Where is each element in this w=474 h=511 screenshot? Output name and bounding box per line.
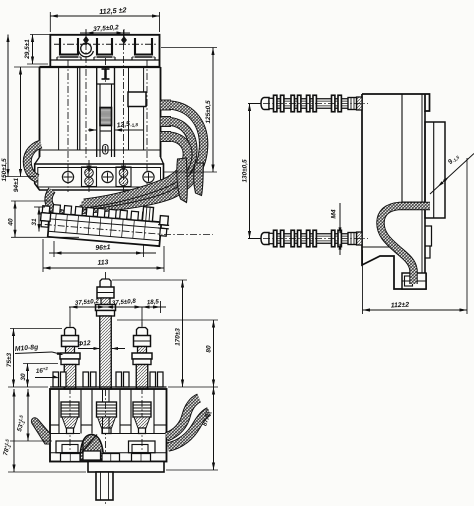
front view: datum diamonds on mounting centerlines xyxy=(83,36,89,44)
dimension 30 xyxy=(23,363,58,365)
front view: I (on) marking xyxy=(104,69,106,79)
side view: step below plate xyxy=(425,226,432,246)
bottom view stud at x=105.5 xyxy=(100,279,111,287)
side view: upper stud nut bars xyxy=(274,95,277,112)
bottom view: left braided wire tail xyxy=(31,418,50,444)
svg-text:29,5±1: 29,5±1 xyxy=(24,39,31,60)
front view: terminal strip xyxy=(35,157,40,164)
bottom view stud at x=70 xyxy=(65,328,76,336)
dimension 53 +1,5/-1 xyxy=(10,440,52,442)
svg-text:170±3: 170±3 xyxy=(175,328,182,346)
bottom view: base plate xyxy=(88,462,164,473)
front view: cap notches xyxy=(60,38,78,55)
dimension 75+-3 xyxy=(10,328,62,330)
dimension M4 stud thread xyxy=(339,203,341,233)
dimension 170+-3 xyxy=(112,279,187,281)
dimension chain 37,5 / 37,5 / 18,5 xyxy=(69,307,71,326)
dimension 80 xyxy=(117,319,218,321)
side view: upper stud tip cap xyxy=(261,98,269,110)
side view: upper terminal stud xyxy=(250,95,368,247)
front view: breaker top cap xyxy=(50,35,159,67)
bottom view: center stud hole walls xyxy=(102,389,104,402)
bottom view: lever diagonal xyxy=(82,435,97,453)
dimension 130+-0,5 stud spacing xyxy=(248,103,261,105)
svg-text:Ф12: Ф12 xyxy=(78,340,92,348)
block left fixing bolt xyxy=(42,206,50,214)
wire: strap from strip left down to block xyxy=(49,190,68,214)
front view: mounting hole with screw xyxy=(81,43,92,54)
bottom view: right braided wires xyxy=(167,398,200,437)
block right end terminal xyxy=(142,207,153,222)
block right fixing bolt xyxy=(160,216,169,226)
front view: toggle handle slot xyxy=(97,83,115,85)
front view: pole centerlines xyxy=(67,60,69,192)
front view: toggle handle knob (hatched) xyxy=(100,108,112,126)
bottom view: contact spring stacks xyxy=(61,402,79,417)
svg-text:112,5 ±2: 112,5 ±2 xyxy=(99,5,127,16)
bottom view: body outline xyxy=(50,389,167,462)
svg-text:40: 40 xyxy=(8,218,15,227)
side view: lower stud shaft xyxy=(269,234,357,244)
dimension 96+-1 xyxy=(53,241,55,257)
bottom view: pole centerlines xyxy=(69,322,71,462)
side view: lower stud collar xyxy=(348,233,357,245)
svg-text:75±3: 75±3 xyxy=(6,352,13,367)
lower terminal block (tilted) xyxy=(39,198,170,247)
dimension 78 +1,5/-1 xyxy=(8,471,86,473)
front view: small window below handle xyxy=(103,145,108,155)
dimension 112,5 +-2 overall width xyxy=(49,12,51,32)
side view: upper stud centerline xyxy=(250,103,368,105)
block centerline xyxy=(45,224,163,234)
bottom view: mechanism dome xyxy=(80,435,104,461)
dimension 12,5-1,8 handle width xyxy=(88,129,97,131)
svg-text:31: 31 xyxy=(31,218,38,226)
side view: lower stud tip cap xyxy=(261,233,269,245)
dimension 113 xyxy=(42,239,44,272)
side view: upper stud collar xyxy=(348,98,357,110)
front view: body outline xyxy=(39,67,41,157)
svg-text:113: 113 xyxy=(97,259,108,267)
bottom view: lower compartment boxes xyxy=(56,441,83,453)
svg-text:150±1,5: 150±1,5 xyxy=(1,158,8,181)
dimension 94+-1 body height xyxy=(14,66,40,68)
block teeth xyxy=(53,205,61,214)
dimension 31 block bar height xyxy=(34,206,45,208)
dimension 150+-1,5 overall height xyxy=(5,176,36,178)
wire: left braided strap of front view xyxy=(27,144,41,179)
front view: nameplate rectangle xyxy=(128,92,146,107)
side view: lower stud centerline xyxy=(250,238,368,240)
side view: bottom foot xyxy=(402,273,426,289)
svg-text:125±0,5: 125±0,5 xyxy=(205,100,212,123)
terminal strip wire clamps xyxy=(82,167,97,187)
wire: hanging strap ends xyxy=(177,158,188,203)
dimension 40 block height xyxy=(11,200,50,202)
side view: lower stud nut bars xyxy=(274,230,277,247)
wire: three braided straps leaving right side xyxy=(161,100,172,111)
svg-text:130±0,5: 130±0,5 xyxy=(242,159,249,182)
svg-text:80: 80 xyxy=(206,345,213,353)
bottom view: inter-pole shelves xyxy=(50,424,59,426)
svg-text:112±2: 112±2 xyxy=(391,302,410,310)
bottom view: arc-chute vent teeth on face xyxy=(53,372,59,387)
front view: body internal mould lines xyxy=(58,67,60,150)
dimension 29,5+-1 cap height xyxy=(30,34,50,36)
svg-text:30: 30 xyxy=(20,373,27,381)
dimension 125+-0,5 right height xyxy=(161,47,217,49)
side view: lower stud body entry boss xyxy=(357,232,363,245)
svg-text:96±1: 96±1 xyxy=(95,244,111,252)
side view: mounting back plate xyxy=(425,122,445,218)
side view: upper stud shaft xyxy=(269,99,357,109)
svg-text:94±1: 94±1 xyxy=(13,177,20,192)
terminal strip screws xyxy=(62,171,73,182)
block bar xyxy=(48,213,162,246)
block centerline continuation xyxy=(164,234,213,236)
bottom view: pole chamber walls xyxy=(58,389,60,434)
dimension 112+-2 side depth xyxy=(362,250,364,314)
bottom view: blade shaft xyxy=(96,472,113,500)
wire: big braided loops sweeping to lower terminal block xyxy=(80,105,204,210)
dimension 9-1,5 back plate xyxy=(430,154,474,195)
bottom view stud at x=142 xyxy=(137,328,148,336)
side view: body outline xyxy=(362,94,430,111)
dimension 87,5 +1/-1 xyxy=(166,469,218,471)
bottom view: mid shelf line xyxy=(50,433,80,435)
svg-text:M4: M4 xyxy=(331,209,338,218)
dimension 37,5+-0,2 hole spacing xyxy=(85,29,87,37)
side view: internal braided wire xyxy=(380,206,430,284)
bottom view: feet row xyxy=(61,454,81,462)
side view: upper stud body entry boss xyxy=(357,97,363,110)
svg-text:18,5: 18,5 xyxy=(147,298,160,306)
